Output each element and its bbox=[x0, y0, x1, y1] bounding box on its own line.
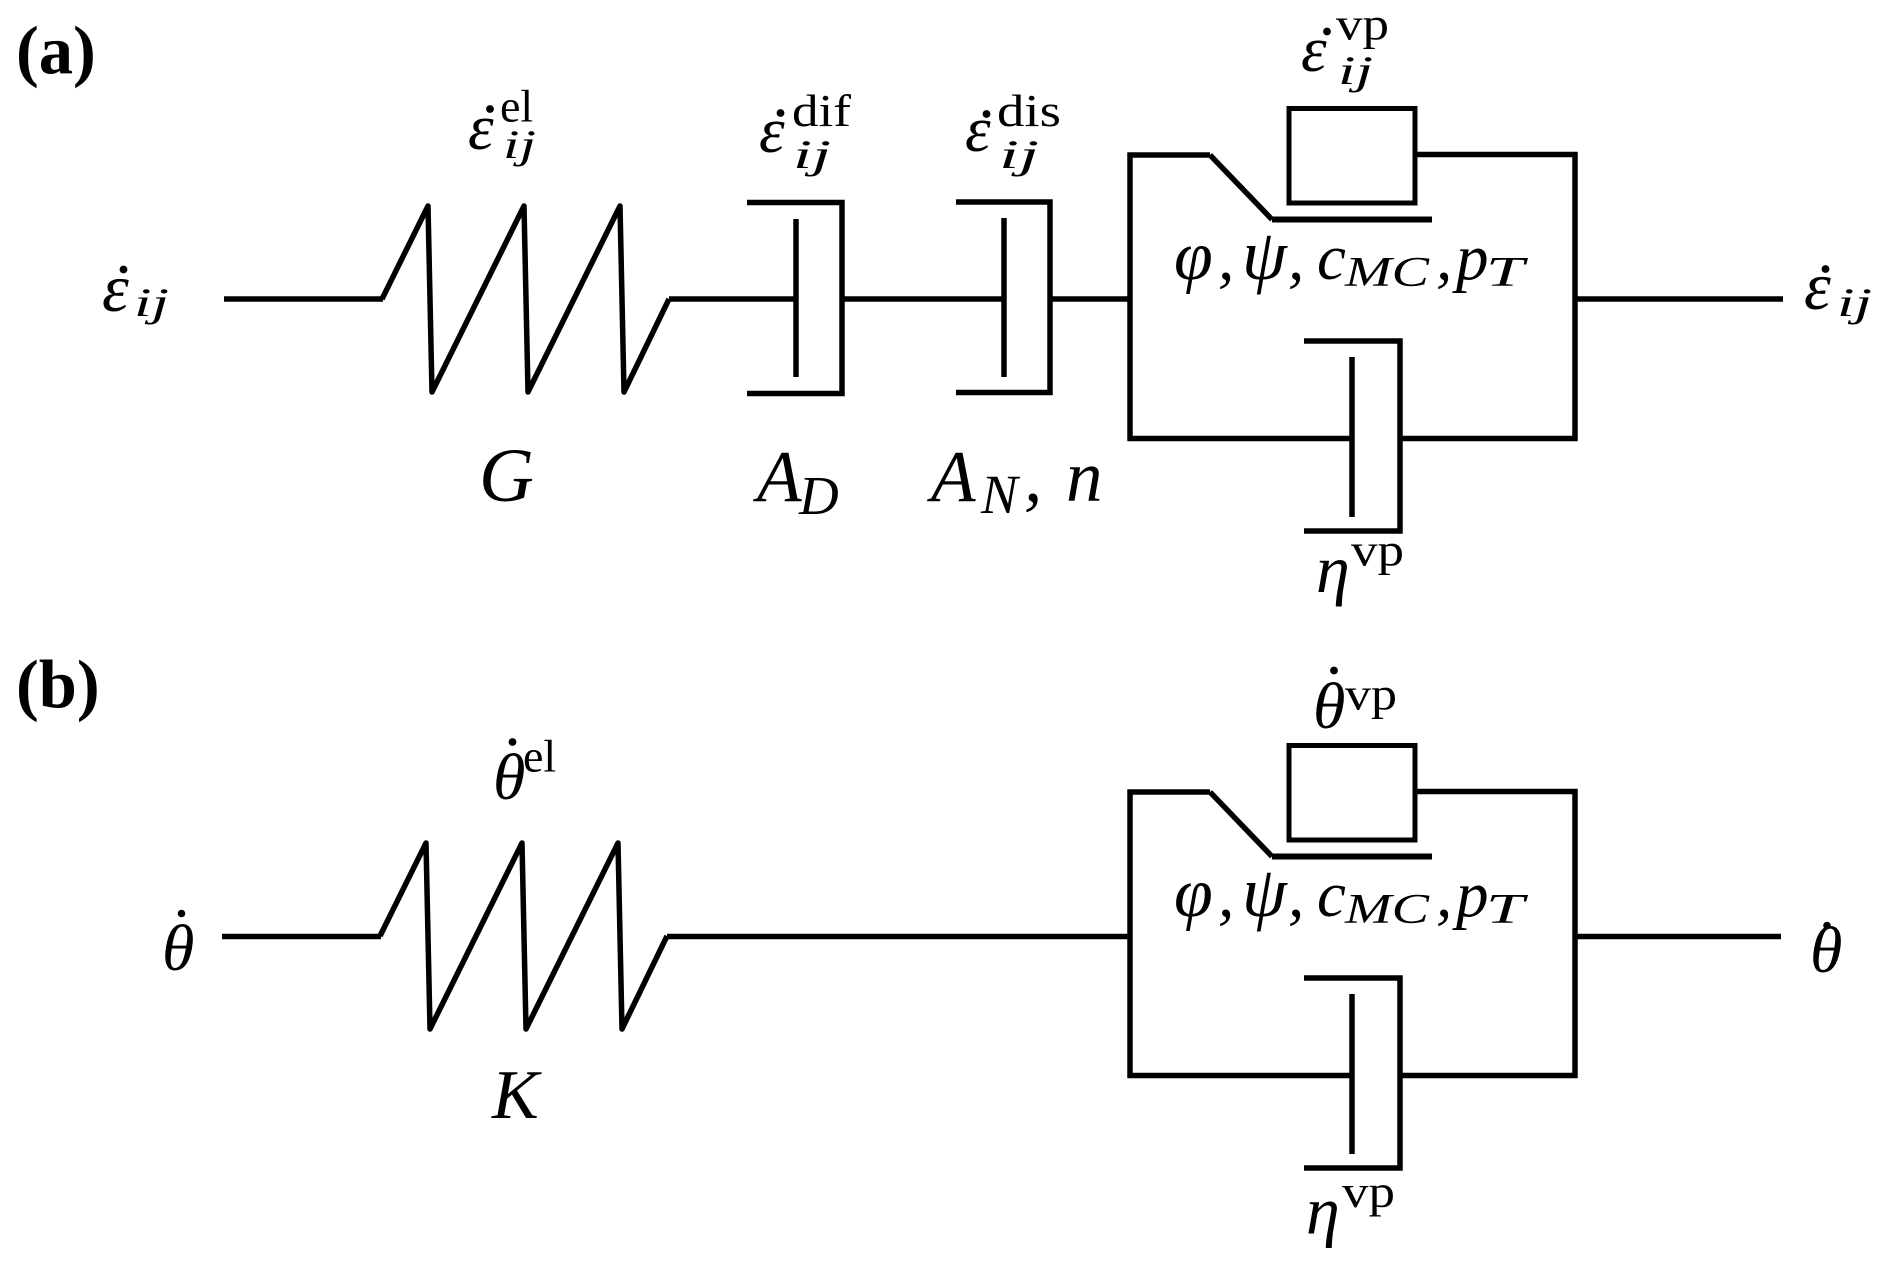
viscoplastic block frame (a) bbox=[1128, 152, 1578, 441]
node output theta label (b) bbox=[1810, 914, 1842, 987]
svg-text:,: , bbox=[1218, 859, 1234, 931]
svg-text:,: , bbox=[1436, 222, 1452, 294]
svg-text:ε: ε bbox=[102, 250, 129, 326]
svg-text:A: A bbox=[753, 436, 802, 517]
svg-text:vp: vp bbox=[1342, 1166, 1395, 1217]
friction parameters label (b) bbox=[1174, 852, 1528, 933]
svg-text:ij: ij bbox=[503, 122, 536, 167]
frame right vertical bbox=[1572, 789, 1578, 1078]
svg-text:η: η bbox=[1306, 1173, 1340, 1249]
svg-text:vp: vp bbox=[1345, 669, 1397, 720]
svg-text:ij: ij bbox=[134, 280, 169, 325]
dashpot A_D bbox=[747, 200, 842, 396]
svg-text:θ: θ bbox=[1313, 670, 1345, 743]
svg-text:ij: ij bbox=[793, 132, 831, 177]
spring rate label (b) bbox=[493, 731, 556, 815]
frame bottom-left wire bbox=[1128, 1073, 1353, 1079]
frame bottom-right wire bbox=[1400, 1073, 1578, 1079]
svg-text:,: , bbox=[1024, 436, 1042, 517]
svg-text:φ: φ bbox=[1174, 855, 1213, 932]
svg-text:T: T bbox=[1486, 887, 1528, 933]
node output strain rate label (a) bbox=[1804, 248, 1872, 325]
svg-text:D: D bbox=[798, 465, 839, 526]
svg-text:vp: vp bbox=[1351, 525, 1404, 576]
node input theta label bbox=[162, 910, 194, 985]
dashpot A_N flow label bbox=[965, 85, 1061, 177]
svg-text:ij: ij bbox=[1837, 280, 1872, 325]
svg-text:ε: ε bbox=[1804, 248, 1831, 324]
svg-text:G: G bbox=[479, 434, 534, 518]
wire (b) bbox=[667, 934, 1132, 940]
friction surface bbox=[1272, 217, 1432, 223]
value label A_D bbox=[753, 436, 839, 526]
wire input (b) bbox=[222, 934, 381, 940]
svg-text:MC: MC bbox=[1344, 250, 1431, 296]
svg-text:(b): (b) bbox=[16, 647, 100, 723]
slider flow label (a) bbox=[1301, 0, 1389, 93]
frame top-left horizontal bbox=[1128, 152, 1211, 158]
value label A_N, n bbox=[927, 436, 1103, 525]
wire bbox=[842, 296, 1004, 302]
wire input (a) bbox=[224, 296, 383, 302]
svg-text:,: , bbox=[1218, 222, 1234, 294]
svg-text:c: c bbox=[1317, 859, 1346, 931]
frame left vertical bbox=[1127, 790, 1133, 1079]
value label eta-vp (b) bbox=[1306, 1166, 1395, 1249]
svg-text:(a): (a) bbox=[16, 13, 96, 89]
svg-text:A: A bbox=[927, 436, 976, 517]
svg-text:θ: θ bbox=[162, 912, 194, 985]
svg-text:ψ: ψ bbox=[1242, 215, 1288, 295]
spring rate label bbox=[468, 81, 536, 168]
friction slider box (b) bbox=[1289, 746, 1415, 841]
dashpot A_N bbox=[956, 199, 1050, 395]
svg-text:ε: ε bbox=[468, 92, 494, 164]
svg-text:el: el bbox=[523, 731, 556, 782]
svg-text:MC: MC bbox=[1344, 887, 1431, 933]
svg-text:K: K bbox=[491, 1057, 542, 1134]
frame top-right horizontal bbox=[1415, 789, 1578, 795]
frame bottom-right wire bbox=[1400, 436, 1578, 442]
svg-text:,: , bbox=[1436, 859, 1452, 931]
svg-text:θ: θ bbox=[493, 741, 525, 814]
wire bbox=[669, 296, 796, 302]
frame right vertical bbox=[1572, 152, 1578, 441]
svg-text:ij: ij bbox=[1338, 48, 1373, 93]
svg-text:N: N bbox=[980, 464, 1021, 525]
svg-text:c: c bbox=[1317, 222, 1346, 294]
value label eta-vp (a) bbox=[1316, 525, 1404, 608]
friction slider box (a) bbox=[1289, 109, 1415, 204]
svg-text:p: p bbox=[1452, 859, 1489, 931]
svg-text:ij: ij bbox=[999, 132, 1039, 177]
svg-text:,: , bbox=[1288, 859, 1304, 931]
svg-text:,: , bbox=[1288, 222, 1304, 294]
slider ramp diagonal bbox=[1210, 155, 1272, 220]
viscoplastic block frame (b) bbox=[1128, 789, 1578, 1078]
svg-text:ε: ε bbox=[965, 94, 991, 166]
dashpot A_D flow label bbox=[759, 85, 852, 177]
node input strain rate label bbox=[102, 250, 169, 326]
svg-text:T: T bbox=[1486, 250, 1528, 296]
frame bottom-left wire bbox=[1128, 436, 1353, 442]
svg-text:n: n bbox=[1066, 436, 1103, 517]
wire bbox=[1050, 296, 1132, 302]
dashpot eta-vp (b) bbox=[1304, 975, 1400, 1170]
wire output (b) bbox=[1575, 934, 1781, 940]
svg-text:ε: ε bbox=[1301, 14, 1327, 86]
spring G bbox=[382, 206, 669, 392]
svg-text:dif: dif bbox=[792, 85, 852, 136]
frame top-right horizontal bbox=[1415, 152, 1578, 158]
friction surface bbox=[1272, 854, 1432, 860]
svg-text:vp: vp bbox=[1336, 0, 1389, 50]
svg-text:dis: dis bbox=[997, 85, 1061, 136]
frame top-left horizontal bbox=[1128, 789, 1211, 795]
slider ramp diagonal bbox=[1210, 792, 1272, 857]
wire output (a) bbox=[1575, 296, 1783, 302]
svg-text:ψ: ψ bbox=[1242, 852, 1288, 932]
svg-text:φ: φ bbox=[1174, 218, 1213, 295]
frame left vertical bbox=[1127, 153, 1133, 442]
dashpot eta-vp (a) bbox=[1304, 338, 1400, 533]
svg-text:η: η bbox=[1316, 531, 1350, 607]
slider flow label (b) bbox=[1313, 667, 1397, 743]
svg-text:p: p bbox=[1452, 222, 1489, 294]
svg-text:ε: ε bbox=[759, 95, 785, 167]
spring K bbox=[380, 843, 667, 1029]
friction parameters label (a) bbox=[1174, 215, 1528, 296]
